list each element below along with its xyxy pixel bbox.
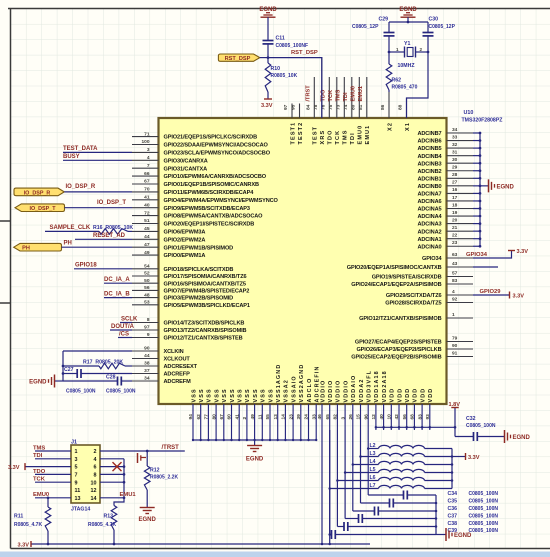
svg-text:C0805_12P: C0805_12P bbox=[352, 24, 379, 30]
svg-text:4: 4 bbox=[147, 155, 150, 161]
connector J1 JTAG14 body bbox=[71, 440, 100, 513]
capacitor C39 bbox=[330, 530, 436, 539]
U10 pin 50 GPIO16/SPISIMOA/CANTXB/TZ5 bbox=[132, 278, 246, 287]
svg-text:TEST: TEST bbox=[313, 126, 319, 145]
U10 pin 54 GPIO18/SPICLKA/SCITXDB bbox=[132, 264, 233, 273]
svg-text:C11: C11 bbox=[276, 36, 285, 42]
svg-text:39: 39 bbox=[296, 414, 302, 420]
svg-text:/TRST: /TRST bbox=[305, 85, 311, 102]
svg-text:GPIO27/ECAP4/EQEP2S/SPISTEB: GPIO27/ECAP4/EQEP2S/SPISTEB bbox=[355, 340, 442, 346]
svg-text:ADCINA1: ADCINA1 bbox=[417, 237, 441, 243]
U10 pin 23 ADCINA0 bbox=[417, 240, 473, 250]
inductor L6 bbox=[337, 475, 452, 481]
svg-text:66: 66 bbox=[144, 171, 150, 177]
no-connect X on J1 pin 6 bbox=[113, 462, 122, 471]
svg-text:C0805_100N: C0805_100N bbox=[106, 389, 136, 395]
wire C11 to junction bbox=[267, 44, 269, 57]
svg-text:TDO: TDO bbox=[33, 469, 46, 475]
svg-text:GPIO12/TZ1/CANTXB/SPISTEB: GPIO12/TZ1/CANTXB/SPISTEB bbox=[164, 336, 243, 342]
U10 pin 71 GPIO21/EQEP1S/SPICLKC/SCIRXDB bbox=[132, 131, 257, 140]
svg-text:ADCINA0: ADCINA0 bbox=[417, 244, 441, 250]
svg-text:R62: R62 bbox=[392, 78, 402, 84]
svg-text:R12: R12 bbox=[150, 468, 160, 474]
U10 pin 29 ADCINB2 bbox=[417, 165, 473, 175]
capacitor C32 bbox=[455, 416, 505, 441]
svg-text:75: 75 bbox=[328, 104, 334, 110]
svg-text:C30: C30 bbox=[429, 17, 439, 23]
U10 pin 28 ADCINB1 bbox=[417, 172, 473, 182]
svg-text:L5: L5 bbox=[370, 467, 376, 473]
wire GPIO29 to 3.3V bbox=[473, 292, 510, 299]
U10 pin 9 GPIO12/TZ1/CANTXB/SPISTEB bbox=[132, 332, 243, 341]
svg-text:EMU1: EMU1 bbox=[365, 125, 371, 145]
svg-text:TDO: TDO bbox=[328, 129, 334, 144]
U10 pin 17 ADCINA6 bbox=[417, 195, 473, 205]
svg-text:VSS: VSS bbox=[238, 388, 244, 402]
wire VDD rail 3 bbox=[352, 430, 355, 511]
svg-text:97: 97 bbox=[283, 104, 289, 110]
svg-text:71: 71 bbox=[144, 131, 150, 137]
svg-text:73: 73 bbox=[335, 104, 341, 110]
svg-text:80: 80 bbox=[350, 104, 356, 110]
svg-text:SAMPLE_CLK: SAMPLE_CLK bbox=[50, 225, 91, 231]
U10 pin 24 ADCLO (bottom) bbox=[304, 378, 313, 440]
svg-text:EMU0: EMU0 bbox=[350, 86, 356, 102]
inductor L3 bbox=[361, 451, 453, 457]
U10 pin 34 ADCINB7 bbox=[417, 127, 473, 137]
svg-text:ADCINB0: ADCINB0 bbox=[417, 184, 441, 190]
wire /CS bbox=[118, 337, 132, 339]
svg-text:XRS: XRS bbox=[320, 130, 326, 145]
svg-text:VSSA2: VSSA2 bbox=[284, 379, 290, 402]
svg-text:TDI: TDI bbox=[33, 453, 43, 459]
svg-text:VDDIO: VDDIO bbox=[320, 380, 326, 403]
svg-text:GPIO30/CANRXA: GPIO30/CANRXA bbox=[164, 158, 208, 164]
resistor R12 bbox=[144, 451, 178, 508]
svg-text:34: 34 bbox=[452, 127, 458, 133]
svg-text:GPIO0/EPWM1A: GPIO0/EPWM1A bbox=[164, 253, 206, 259]
wire VSS ground bus bbox=[192, 439, 318, 441]
ground EGND at capacitor bus bbox=[436, 528, 472, 541]
U10 pin 88 X1 (top) bbox=[398, 98, 411, 131]
wire RST_DSP to XRS pin bbox=[260, 56, 322, 118]
svg-text:23: 23 bbox=[452, 240, 458, 246]
svg-text:PH: PH bbox=[64, 241, 72, 247]
svg-text:EMU0: EMU0 bbox=[33, 492, 49, 498]
U10 pin 10 VDD (bottom) bbox=[387, 388, 396, 430]
svg-text:ADCINB1: ADCINB1 bbox=[417, 176, 441, 182]
port PH bbox=[14, 243, 62, 251]
svg-text:49: 49 bbox=[144, 250, 150, 256]
U10 pin 37 ADCREFP bbox=[132, 368, 190, 377]
svg-text:GPIO19/SPISTEA/SCIRXDB: GPIO19/SPISTEA/SCIRXDB bbox=[372, 275, 442, 281]
svg-text:EMU1: EMU1 bbox=[120, 492, 137, 498]
U10 pin 94 VSS (bottom) bbox=[188, 388, 197, 440]
ground EGND right of C32 bbox=[504, 430, 506, 443]
svg-text:51: 51 bbox=[144, 218, 150, 224]
svg-text:C27: C27 bbox=[64, 367, 74, 373]
svg-text:XCLKOUT: XCLKOUT bbox=[164, 357, 191, 363]
wire VDD rail 1 bbox=[367, 430, 370, 495]
wire J1 EMU0 bbox=[35, 496, 71, 499]
svg-text:GPIO3/EPWM2B/SPISOMID: GPIO3/EPWM2B/SPISOMID bbox=[164, 296, 234, 302]
port IO_DSP_T bbox=[15, 204, 65, 212]
U10 pin 72 GPIO8/EPWM5A/CANTXB/ADCSOCAO bbox=[132, 210, 263, 219]
capacitor C36 label bbox=[448, 506, 499, 512]
wire 1.8V VDD bus bbox=[375, 426, 457, 429]
wire capacitor ground bus bbox=[435, 495, 438, 535]
svg-text:VSS: VSS bbox=[230, 388, 236, 402]
port RST_DSP bbox=[218, 54, 259, 62]
svg-text:95: 95 bbox=[291, 104, 297, 110]
svg-text:TMS: TMS bbox=[335, 89, 341, 101]
svg-text:GPIO7/EPWM4B/SPISTED/ECAP2: GPIO7/EPWM4B/SPISTED/ECAP2 bbox=[164, 289, 250, 295]
wire 3.3V inductor bus bbox=[451, 449, 454, 489]
svg-text:3.3V: 3.3V bbox=[468, 455, 480, 461]
U10 pin 4 GPIO30/CANRXA bbox=[132, 155, 208, 164]
svg-text:4: 4 bbox=[452, 289, 455, 295]
svg-text:10MHZ: 10MHZ bbox=[398, 63, 416, 69]
svg-text:GPIO31/CANTXA: GPIO31/CANTXA bbox=[164, 166, 208, 172]
wire DOUT/A bbox=[110, 329, 132, 331]
wire J1 TCK bbox=[35, 481, 71, 483]
power bar symbol on TRST net bbox=[138, 453, 147, 463]
U10 pin 74 TDI (top) bbox=[343, 77, 356, 145]
svg-text:EMU1: EMU1 bbox=[358, 86, 364, 102]
svg-text:SCLK: SCLK bbox=[121, 316, 138, 322]
svg-text:EGND: EGND bbox=[497, 184, 515, 190]
U10 pin 73 TMS (top) bbox=[335, 77, 348, 145]
svg-text:U10: U10 bbox=[464, 110, 474, 116]
svg-text:GPIO26/ECAP3/EQEP2I/SPICLKB: GPIO26/ECAP3/EQEP2I/SPICLKB bbox=[356, 347, 441, 353]
svg-text:34: 34 bbox=[144, 376, 150, 382]
wire VDD rail 2 bbox=[359, 430, 362, 503]
svg-text:L6: L6 bbox=[370, 475, 376, 481]
svg-text:L3: L3 bbox=[370, 451, 376, 457]
svg-text:80: 80 bbox=[211, 414, 217, 420]
svg-text:VDD: VDD bbox=[413, 388, 419, 403]
crystal Y1 10MHZ bbox=[396, 41, 423, 69]
wire DC_IA_B bbox=[104, 297, 132, 299]
svg-text:IO_DSP_T: IO_DSP_T bbox=[29, 206, 56, 212]
svg-text:100: 100 bbox=[141, 139, 149, 145]
svg-text:VDD: VDD bbox=[397, 388, 403, 403]
svg-text:C0805_100N: C0805_100N bbox=[469, 491, 499, 497]
svg-text:40: 40 bbox=[144, 202, 150, 208]
capacitor C34 label bbox=[448, 491, 499, 497]
wire crystal cap top bus bbox=[389, 21, 428, 23]
wire VDD rail 4 bbox=[344, 430, 347, 519]
svg-text:10: 10 bbox=[91, 480, 97, 486]
svg-text:VSSAIO: VSSAIO bbox=[291, 375, 297, 402]
svg-text:3.3V: 3.3V bbox=[8, 465, 20, 471]
svg-text:56: 56 bbox=[402, 414, 408, 420]
svg-text:VDDIO: VDDIO bbox=[343, 380, 349, 403]
svg-text:/TRST: /TRST bbox=[162, 445, 180, 451]
svg-text:22: 22 bbox=[452, 233, 458, 239]
capacitor C38 label bbox=[448, 521, 499, 527]
svg-text:X2: X2 bbox=[387, 122, 393, 131]
svg-text:82: 82 bbox=[333, 414, 339, 420]
svg-text:/CS: /CS bbox=[119, 331, 129, 337]
U10 pin 43 GPIO20/EQEP1A/SPISIMOC/CANTXB bbox=[347, 261, 473, 271]
U10 pin 49 GPIO0/EPWM1A bbox=[132, 250, 205, 259]
svg-text:91: 91 bbox=[452, 350, 458, 356]
svg-text:63: 63 bbox=[452, 252, 458, 258]
svg-text:74: 74 bbox=[343, 104, 349, 110]
svg-text:GPIO20/EQEP1I/SPISTEC/SCIRXDB: GPIO20/EQEP1I/SPISTEC/SCIRXDB bbox=[164, 222, 255, 228]
sheet border bbox=[10, 9, 12, 549]
U10 pin 77 VSS (bottom) bbox=[204, 388, 213, 440]
resistor R62 bbox=[386, 52, 417, 92]
capacitor C37 label bbox=[448, 513, 499, 519]
svg-text:32: 32 bbox=[452, 142, 458, 148]
svg-text:8: 8 bbox=[147, 317, 150, 323]
power 3.3V at inductor bus bbox=[452, 453, 480, 461]
svg-text:C29: C29 bbox=[379, 17, 389, 23]
U10 pin 14 VSSA2 (bottom) bbox=[281, 379, 290, 440]
inductor L5 bbox=[345, 467, 452, 473]
capacitor C30 bbox=[423, 17, 456, 36]
svg-text:GPIO10/EPWM6A/CANRXB/ADCSOCBO: GPIO10/EPWM6A/CANRXB/ADCSOCBO bbox=[164, 174, 267, 180]
U10 pin 42 VDD (bottom) bbox=[394, 388, 403, 430]
svg-text:C36: C36 bbox=[448, 506, 458, 512]
inductor L2 bbox=[368, 443, 452, 449]
svg-text:C35: C35 bbox=[448, 499, 458, 505]
svg-text:ADCINA4: ADCINA4 bbox=[417, 214, 442, 220]
U10 pin 11 VSS (bottom) bbox=[258, 388, 267, 440]
resistor R17 on ADCRESEXT bbox=[63, 360, 132, 369]
svg-text:VSS2AGND: VSS2AGND bbox=[299, 364, 305, 403]
svg-text:C34: C34 bbox=[448, 491, 458, 497]
U10 pin 40 GPIO9/EPWM5B/SCITXDB/ECAP3 bbox=[132, 202, 250, 211]
svg-text:38: 38 bbox=[144, 361, 150, 367]
svg-text:20: 20 bbox=[452, 217, 458, 223]
svg-text:68: 68 bbox=[410, 414, 416, 420]
sheet zone tick marks bbox=[0, 220, 11, 222]
inductor L4 bbox=[353, 459, 452, 465]
svg-text:DC_IA_A: DC_IA_A bbox=[104, 277, 130, 283]
svg-text:GPIO5/EPWM3B/SPICLKD/ECAP1: GPIO5/EPWM3B/SPICLKD/ECAP1 bbox=[164, 303, 250, 309]
svg-text:BUSY: BUSY bbox=[63, 154, 80, 160]
svg-text:86: 86 bbox=[380, 104, 386, 110]
svg-text:R13: R13 bbox=[104, 514, 114, 520]
svg-text:GPIO28/SCIRXDA/TZ5: GPIO28/SCIRXDA/TZ5 bbox=[385, 301, 441, 307]
U10 pin 33 ADCINB6 bbox=[417, 134, 473, 144]
svg-text:VDD: VDD bbox=[420, 388, 426, 403]
svg-text:ADCINB4: ADCINB4 bbox=[417, 154, 442, 160]
svg-text:GPIO6/EPWM3A: GPIO6/EPWM3A bbox=[164, 230, 206, 236]
svg-text:TCK: TCK bbox=[33, 477, 46, 483]
svg-text:IO_DSP_T: IO_DSP_T bbox=[97, 200, 126, 206]
svg-text:L7: L7 bbox=[370, 483, 376, 489]
svg-text:GPIO34: GPIO34 bbox=[466, 252, 488, 258]
capacitor C11 bbox=[263, 36, 309, 49]
wire C29 to crystal pin 1 bbox=[388, 36, 405, 53]
svg-text:GPIO13/TZ2/CANRXB/SPISOMIB: GPIO13/TZ2/CANRXB/SPISOMIB bbox=[164, 328, 247, 334]
svg-text:65: 65 bbox=[325, 414, 331, 420]
svg-text:C0805_100N: C0805_100N bbox=[469, 499, 499, 505]
svg-text:TEST1: TEST1 bbox=[290, 122, 296, 145]
U10 pin 57 GPIO19/SPISTEA/SCIRXDB bbox=[372, 270, 473, 280]
svg-text:TCK: TCK bbox=[335, 130, 341, 145]
svg-text:GPIO01/EQEP1B/SPISOMIC/CANRXB: GPIO01/EQEP1B/SPISOMIC/CANRXB bbox=[164, 182, 259, 188]
svg-text:EGND: EGND bbox=[246, 457, 264, 463]
U10 pin 76 TDO (top) bbox=[320, 77, 333, 145]
ground EGND above C11 bbox=[259, 7, 277, 41]
wire J1 TMS bbox=[35, 450, 71, 452]
wire IO_DSP_R bbox=[64, 191, 132, 193]
U10 pin 22 ADCINA1 bbox=[417, 233, 473, 243]
svg-text:9: 9 bbox=[147, 332, 150, 338]
capacitor C27 on ADCREFP bbox=[63, 367, 132, 395]
svg-text:TEST2: TEST2 bbox=[298, 122, 304, 145]
U10 pin 47 GPIO1/EPWM1B/SPISIMOD bbox=[132, 242, 233, 251]
ground EGND at ADC bus bbox=[480, 179, 515, 192]
svg-text:8: 8 bbox=[94, 473, 97, 479]
svg-text:GPIO2/EPWM2A: GPIO2/EPWM2A bbox=[164, 237, 206, 243]
svg-text:RST_DSP: RST_DSP bbox=[291, 50, 318, 56]
svg-text:27: 27 bbox=[452, 180, 458, 186]
svg-text:PH: PH bbox=[22, 246, 30, 252]
U10 pin 31 ADCINB4 bbox=[417, 149, 473, 159]
svg-text:J1: J1 bbox=[71, 440, 77, 446]
svg-text:VSS: VSS bbox=[245, 388, 251, 402]
U10 pin 18 ADCINA5 bbox=[417, 202, 473, 212]
svg-text:C0805_12P: C0805_12P bbox=[429, 24, 456, 30]
svg-text:1.8V: 1.8V bbox=[449, 402, 461, 408]
svg-text:VDDAIO: VDDAIO bbox=[351, 375, 357, 403]
U10 pin 26 VDDAIO (bottom) bbox=[348, 375, 357, 430]
wire crystal pin 2 to X1 bbox=[407, 36, 430, 118]
svg-text:83: 83 bbox=[452, 278, 458, 284]
svg-text:48: 48 bbox=[144, 292, 150, 298]
svg-text:15: 15 bbox=[356, 414, 362, 420]
svg-text:93: 93 bbox=[425, 414, 431, 420]
svg-text:GPIO23/SCLA/EPWMSYNCO/ADCSOCBO: GPIO23/SCLA/EPWMSYNCO/ADCSOCBO bbox=[164, 151, 271, 157]
wire VDD rail 6 bbox=[328, 430, 331, 535]
U10 pin 63 GPIO34 bbox=[422, 252, 473, 262]
svg-text:47: 47 bbox=[144, 242, 150, 248]
U10 pin 20 ADCINA3 bbox=[417, 217, 473, 227]
svg-text:C0805_100N: C0805_100N bbox=[466, 423, 496, 429]
U10 pin 3 GPIO23/SCLA/EPWMSYNCO/ADCSOCBO bbox=[132, 147, 271, 156]
svg-text:41: 41 bbox=[234, 414, 240, 420]
svg-text:C0805_100N: C0805_100N bbox=[469, 528, 499, 534]
ground EGND below R12 bbox=[140, 507, 155, 509]
svg-text:60: 60 bbox=[227, 414, 233, 420]
svg-text:83: 83 bbox=[417, 414, 423, 420]
svg-text:ADCRESEXT: ADCRESEXT bbox=[164, 364, 198, 370]
U10 pin 67 VSS (bottom) bbox=[219, 388, 228, 440]
svg-text:EGND: EGND bbox=[454, 533, 472, 539]
svg-text:11: 11 bbox=[75, 488, 81, 494]
svg-text:10: 10 bbox=[387, 414, 393, 420]
svg-text:C0805_100N: C0805_100N bbox=[469, 521, 499, 527]
svg-text:R17 R0805_20K: R17 R0805_20K bbox=[83, 360, 123, 366]
svg-text:VDD3VFL: VDD3VFL bbox=[367, 370, 373, 403]
svg-text:R10: R10 bbox=[271, 66, 281, 72]
U10 pin 90 XCLKIN bbox=[132, 346, 184, 355]
U10 pin 90 GPIO26/ECAP3/EQEP2I/SPICLKB bbox=[356, 343, 473, 353]
svg-text:42: 42 bbox=[394, 414, 400, 420]
svg-text:TDI: TDI bbox=[343, 92, 349, 101]
svg-text:9: 9 bbox=[75, 480, 78, 486]
U10 pin 48 GPIO3/EPWM2B/SPISOMID bbox=[132, 292, 233, 301]
capacitor C35 bbox=[361, 499, 437, 508]
resistor R11 bbox=[14, 498, 51, 544]
svg-text:44: 44 bbox=[144, 234, 150, 240]
wire RESET_AD bbox=[75, 238, 132, 240]
U10 pin 8 GPIO14/TZ3/SCITXDB/SPICLKB bbox=[132, 317, 244, 326]
svg-text:3.3V: 3.3V bbox=[18, 542, 30, 548]
svg-text:29: 29 bbox=[452, 165, 458, 171]
U10 pin 21 ADCINA2 bbox=[417, 225, 473, 235]
wire GPIO18 bbox=[74, 268, 132, 270]
window band below sheet bbox=[0, 552, 550, 557]
svg-text:GPIO22/SDAA/EPWMSYNCI/ADCSOCAO: GPIO22/SDAA/EPWMSYNCI/ADCSOCAO bbox=[164, 143, 269, 149]
svg-text:67: 67 bbox=[219, 414, 225, 420]
U10 pin 97 TEST1 (top) bbox=[283, 104, 296, 145]
svg-text:VDD1A18: VDD1A18 bbox=[374, 370, 380, 402]
svg-text:7: 7 bbox=[147, 163, 150, 169]
svg-text:EGND: EGND bbox=[29, 380, 47, 386]
capacitor C39 label bbox=[448, 528, 499, 534]
svg-text:Y1: Y1 bbox=[404, 41, 410, 47]
svg-text:43: 43 bbox=[452, 261, 458, 267]
svg-text:14: 14 bbox=[281, 414, 287, 420]
svg-text:24: 24 bbox=[304, 414, 310, 420]
ground EGND above crystal caps bbox=[399, 7, 417, 23]
svg-text:81: 81 bbox=[358, 104, 364, 110]
svg-text:L2: L2 bbox=[370, 443, 376, 449]
svg-text:TMS: TMS bbox=[343, 129, 349, 144]
svg-text:52: 52 bbox=[144, 271, 150, 277]
U10 pin 44 XCLKOUT bbox=[132, 353, 190, 362]
U10 pin 91 GPIO25/ECAP2/EQEP2B/SPISOMIB bbox=[351, 350, 473, 360]
U10 pin 96 VDD3VFL (bottom) bbox=[363, 370, 372, 430]
svg-text:57: 57 bbox=[452, 270, 458, 276]
svg-text:X1: X1 bbox=[405, 122, 411, 131]
svg-text:XCLKIN: XCLKIN bbox=[164, 349, 184, 355]
svg-text:96: 96 bbox=[363, 414, 369, 420]
svg-text:GPIO25/ECAP2/EQEP2B/SPISOMIB: GPIO25/ECAP2/EQEP2B/SPISOMIB bbox=[351, 355, 441, 361]
svg-text:GPIO18/SPICLKA/SCITXDB: GPIO18/SPICLKA/SCITXDB bbox=[164, 267, 234, 273]
svg-text:ADCREFP: ADCREFP bbox=[164, 372, 191, 378]
svg-text:19: 19 bbox=[452, 210, 458, 216]
svg-text:12: 12 bbox=[371, 414, 377, 420]
svg-text:GPIO29: GPIO29 bbox=[480, 289, 502, 295]
svg-text:26: 26 bbox=[348, 414, 354, 420]
svg-text:RESET_AD: RESET_AD bbox=[93, 233, 126, 239]
svg-text:VDD: VDD bbox=[405, 388, 411, 403]
svg-text:97: 97 bbox=[144, 325, 150, 331]
U10 pin 70 GPIO11/EPWM6B/SCIRXDB/ECAP4 bbox=[132, 187, 254, 196]
power 1.8V bbox=[449, 402, 461, 437]
svg-text:R11: R11 bbox=[14, 514, 23, 520]
resistor R13 bbox=[88, 498, 124, 544]
U10 pin 52 GPIO17/SPISOMIA/CANRXB/TZ6 bbox=[132, 271, 246, 280]
U10 pin 41 GPIO4/EPWM4A/EPWMSYNCI/EPWMSYNCO bbox=[132, 195, 279, 204]
svg-text:1: 1 bbox=[452, 312, 455, 318]
wire XCLKIN to left bus bbox=[62, 351, 132, 381]
U10 pin 1 GPIO12/TZ1/CANTXB/SPISIMOB bbox=[359, 312, 473, 322]
svg-text:C0805_100NF: C0805_100NF bbox=[276, 43, 309, 49]
U10 pin 81 EMU1 (top) bbox=[358, 77, 371, 145]
svg-text:GPIO18: GPIO18 bbox=[75, 263, 97, 269]
U10 pin 93 VDD (bottom) bbox=[425, 388, 434, 430]
svg-text:R0805_4.7K: R0805_4.7K bbox=[88, 522, 116, 528]
